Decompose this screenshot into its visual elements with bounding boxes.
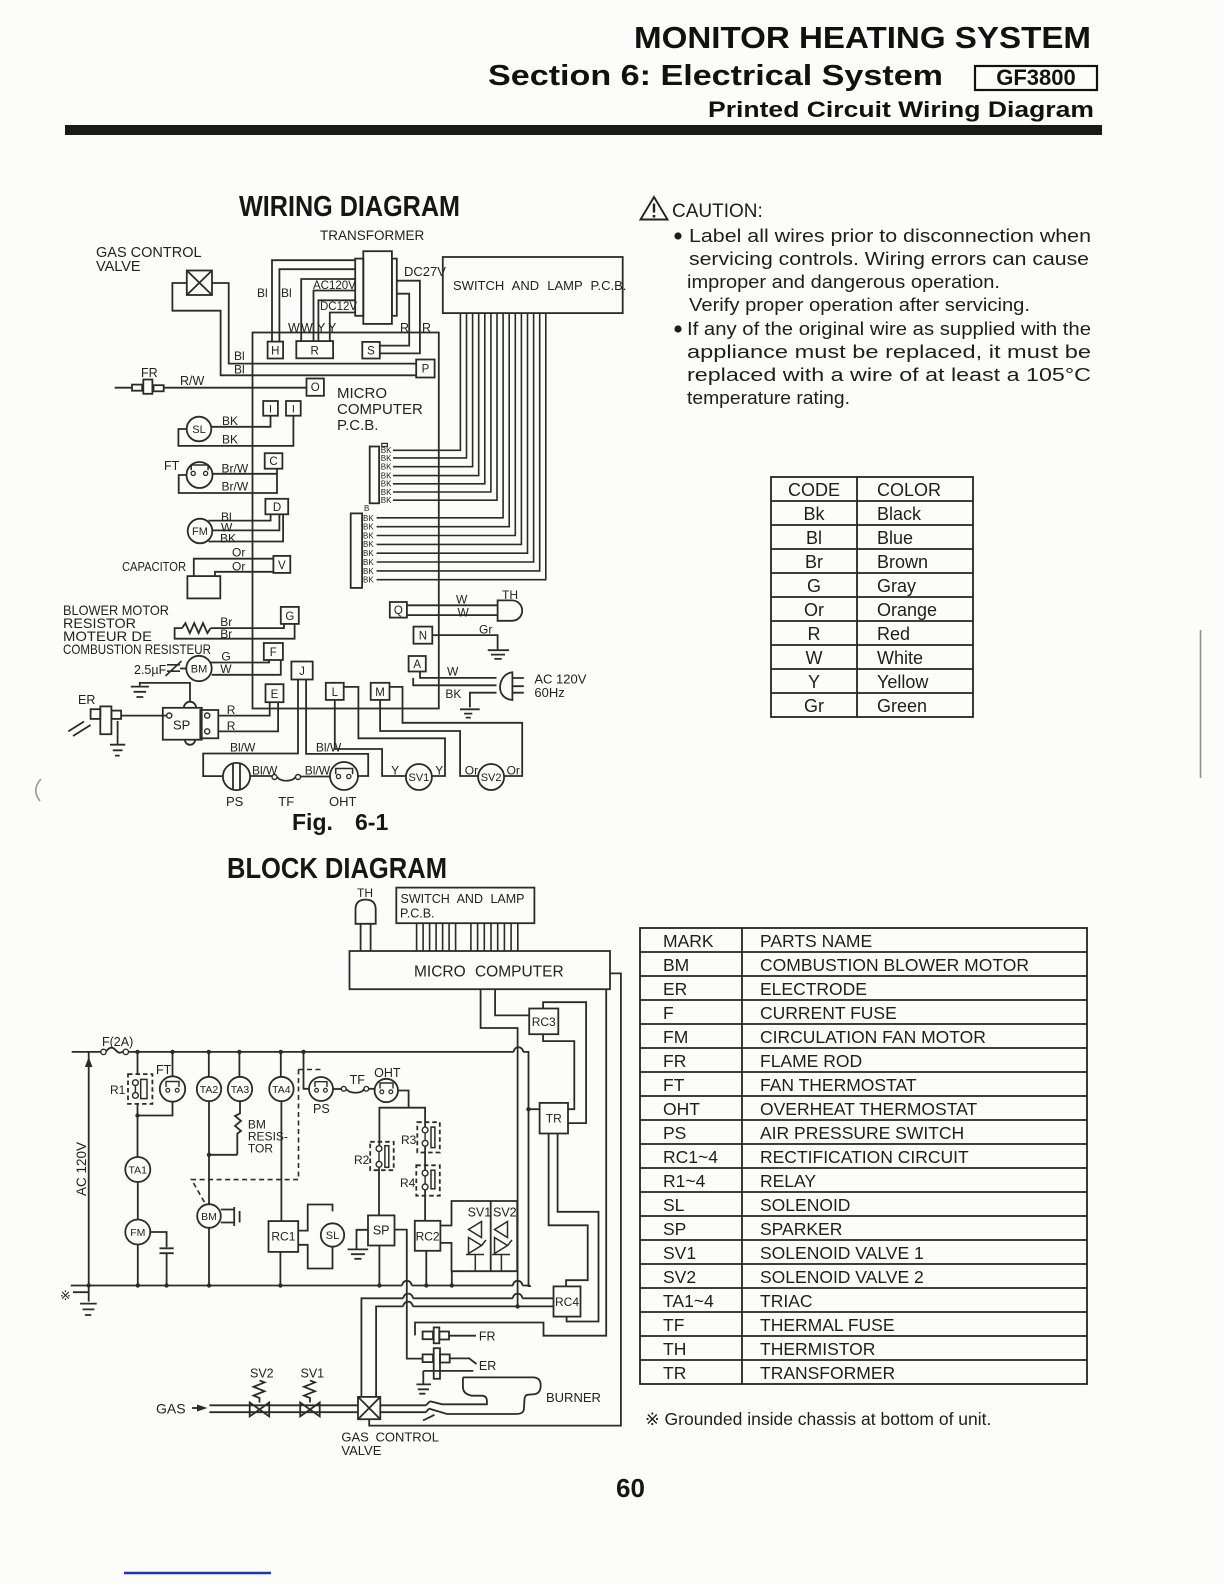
wire TA2 to BM and resistor junction: [208, 1101, 210, 1204]
svg-text:Bl: Bl: [806, 528, 822, 548]
svg-text:R: R: [808, 624, 821, 644]
svg-text:GF3800: GF3800: [996, 65, 1076, 90]
svg-text:PS: PS: [663, 1123, 686, 1143]
wire node to R3: [409, 1108, 426, 1127]
svg-text:R1~4: R1~4: [663, 1171, 706, 1191]
svg-text:Or: Or: [507, 764, 520, 778]
component R2 relay: [370, 1142, 394, 1170]
component BURNER outline: [429, 1377, 541, 1414]
svg-text:RC1: RC1: [271, 1230, 295, 1244]
svg-text:Gr: Gr: [479, 623, 492, 637]
wire TR left stub: [529, 1108, 540, 1110]
svg-text:C: C: [269, 456, 277, 468]
svg-text:Brown: Brown: [877, 552, 928, 572]
wire from A branch to plug middle: [413, 678, 496, 685]
terminal F: [264, 643, 283, 660]
svg-text:R: R: [227, 703, 236, 717]
svg-text:Bl/W: Bl/W: [305, 764, 331, 778]
svg-text:BK: BK: [363, 540, 374, 549]
wire RC1 to SL lower bracket: [298, 1245, 332, 1269]
svg-text:BM: BM: [663, 955, 689, 975]
svg-text:If any of the original wire as: If any of the original wire as supplied …: [687, 318, 1091, 339]
wire BK FM to D: [209, 514, 284, 541]
svg-text:SP: SP: [663, 1219, 686, 1239]
svg-text:S: S: [367, 346, 375, 358]
resistor R-BM (block) zigzag: [235, 1101, 241, 1155]
wire TA4 to RC1: [280, 1101, 282, 1221]
svg-text:AC120V: AC120V: [313, 280, 356, 292]
svg-text:Yellow: Yellow: [877, 672, 929, 692]
label CAPACITOR: [122, 559, 186, 574]
ground (SP): [140, 683, 190, 702]
svg-text:RELAY: RELAY: [760, 1171, 816, 1191]
component R1 relay: [137, 1052, 139, 1074]
component FM circulation fan motor (block): [125, 1220, 150, 1245]
svg-text:Verify proper operation after: Verify proper operation after servicing.: [689, 294, 1030, 315]
label BLOWER MOTOR RESISTOR (bilingual): [63, 602, 211, 657]
component TR transformer (block): [540, 1103, 568, 1134]
svg-text:DC27V: DC27V: [404, 264, 446, 279]
svg-text:BK: BK: [445, 687, 461, 701]
wire G BM to F: [211, 660, 270, 663]
component RC2 rectification circuit: [415, 1221, 441, 1251]
scan artifact: blue underline bottom left: [124, 1572, 271, 1575]
svg-text:ELECTRODE: ELECTRODE: [760, 979, 867, 999]
svg-text:TA1: TA1: [129, 1165, 148, 1177]
wire pin bus group 1 (7 pins): [417, 923, 456, 951]
svg-text:W: W: [458, 606, 470, 620]
component BM blower motor (block): [197, 1204, 221, 1228]
svg-text:FLAME ROD: FLAME ROD: [760, 1051, 862, 1071]
ground (plug BK): [460, 709, 480, 717]
wire W FM to D: [212, 514, 279, 530]
component FM circulation fan motor: [188, 519, 213, 544]
wire TH legs to micro computer: [361, 924, 371, 951]
svg-text:SOLENOID: SOLENOID: [760, 1195, 850, 1215]
svg-text:TF: TF: [278, 794, 294, 809]
transformer T1 core: [363, 251, 392, 324]
svg-text:R4: R4: [400, 1176, 416, 1190]
svg-text:RC3: RC3: [532, 1015, 556, 1029]
rail A (neutral bottom rail): [71, 1286, 530, 1288]
component gas control valve (block): [358, 1397, 380, 1419]
svg-text:R2: R2: [354, 1153, 370, 1167]
ground (ER block): [422, 1371, 424, 1384]
spark gap marks: [68, 722, 90, 737]
junction dots rail A: [87, 1050, 531, 1309]
terminal H: [268, 342, 284, 359]
component SV2 solenoid valve 2: [478, 764, 504, 790]
svg-text:Orange: Orange: [877, 600, 937, 620]
svg-text:60: 60: [616, 1473, 645, 1503]
wire RC2 to SV1 box top: [440, 1201, 464, 1226]
terminal O: [307, 379, 324, 396]
wire micro drop to rail C (long): [481, 989, 518, 1306]
rail A hop over micro drop: [513, 1281, 522, 1286]
capacitor BM stub: [221, 1210, 234, 1223]
svg-text:SWITCH AND LAMP P.C.B.: SWITCH AND LAMP P.C.B.: [453, 278, 626, 293]
svg-text:FM: FM: [663, 1027, 688, 1047]
wire DC27V lower to S stub: [380, 281, 420, 354]
svg-text:V: V: [278, 560, 286, 572]
svg-text:G: G: [285, 611, 294, 623]
svg-text:SL: SL: [326, 1230, 339, 1242]
component OHT overheat thermostat: [330, 762, 358, 790]
scan artifact: right margin line: [1200, 630, 1202, 778]
label TRANSFORMER: [320, 228, 425, 243]
svg-text:BK: BK: [381, 463, 392, 472]
fuse F(2A): [102, 1035, 133, 1049]
svg-text:TR: TR: [663, 1363, 686, 1383]
svg-text:A: A: [413, 659, 421, 671]
micro computer box: [350, 951, 611, 989]
terminal I1: [263, 401, 278, 416]
svg-text:FT: FT: [164, 459, 180, 473]
svg-text:SV2: SV2: [663, 1267, 696, 1287]
svg-text:BK: BK: [363, 567, 374, 576]
wire TR secondary 2 to RC4 bottom loop: [558, 1134, 599, 1322]
svg-text:SP: SP: [173, 718, 190, 733]
wire rail to PS: [304, 1052, 310, 1089]
wire W from A to plug: [420, 672, 497, 678]
AC rail top continued with hop over micro drop: [129, 1051, 514, 1053]
svg-text:Br/W: Br/W: [222, 480, 249, 494]
wire Bl/W J to OHT right loop: [306, 680, 368, 777]
wire RC2 to SV box bottom: [440, 1243, 451, 1271]
svg-text:R/W: R/W: [180, 374, 205, 388]
wire TR secondary 1 to RC4 top: [549, 1134, 588, 1287]
svg-text:FM: FM: [130, 1227, 145, 1239]
terminal S: [362, 342, 380, 359]
svg-text:RC1~4: RC1~4: [663, 1147, 718, 1167]
terminal J: [291, 662, 312, 680]
label AC120V / DC12V / DC27V: [313, 264, 446, 313]
svg-text:BK: BK: [363, 549, 374, 558]
thyristor SV2 glyph: [492, 1222, 512, 1255]
header rule bar: [65, 125, 1102, 135]
valve SV1 (gas train): [300, 1403, 320, 1417]
svg-text:Or: Or: [232, 546, 245, 560]
svg-text:P: P: [422, 364, 430, 376]
connector CN2 lower: [351, 513, 362, 588]
svg-text:Gr: Gr: [804, 696, 824, 716]
ground (N wire): [488, 650, 509, 659]
wire Br/W FT right to C: [213, 473, 278, 475]
svg-text:Bl/W: Bl/W: [230, 741, 256, 755]
svg-text:TRANSFORMER: TRANSFORMER: [320, 228, 425, 243]
wire valve right lead to P (Bl): [212, 283, 416, 364]
wire R4 to RC2: [424, 1190, 426, 1221]
wire W BM to F: [212, 660, 281, 675]
svg-text:RC4: RC4: [555, 1295, 579, 1309]
component TA1 triac: [125, 1157, 150, 1182]
wire Gr from N to ground: [432, 635, 497, 649]
thyristor SV1 glyph: [466, 1222, 486, 1255]
wire R1 to TA1: [137, 1104, 139, 1157]
svg-text:Bl: Bl: [234, 349, 245, 363]
transformer T1 right plate: [392, 259, 397, 316]
wire FT bottom joins R1/TA1 line: [138, 1102, 173, 1116]
svg-text:FT: FT: [663, 1075, 685, 1095]
svg-text:I: I: [269, 404, 272, 416]
svg-text:O: O: [311, 382, 320, 394]
svg-text:Br: Br: [220, 627, 232, 641]
svg-text:SV1: SV1: [409, 772, 430, 784]
wire RC2 to rail A: [425, 1251, 427, 1287]
component FT fan thermostat: [164, 459, 180, 473]
svg-text:TA2: TA2: [200, 1084, 219, 1096]
component TF thermal fuse: [250, 775, 272, 777]
svg-text:BK: BK: [222, 433, 238, 447]
ground (SP block): [357, 1230, 369, 1249]
wire Br resistor bottom loop to G: [175, 624, 295, 639]
wire Bl pair to terminal H: [272, 260, 355, 341]
component RC4 rectification circuit: [554, 1286, 581, 1316]
terminal P: [416, 360, 434, 378]
wire FM to run capacitor: [150, 1232, 166, 1247]
terminal D: [265, 499, 288, 515]
wire AC feed down to TR left and rail A: [523, 1052, 528, 1287]
svg-text:TRIAC: TRIAC: [760, 1291, 813, 1311]
label AC 120V (rotated): [74, 1142, 89, 1196]
terminal V: [273, 556, 290, 573]
svg-text:SV1: SV1: [468, 1206, 492, 1220]
svg-text:BLOCK DIAGRAM: BLOCK DIAGRAM: [227, 853, 447, 885]
component FR flame rod: [141, 366, 205, 388]
svg-text:SL: SL: [663, 1195, 685, 1215]
svg-text:OVERHEAT THERMOSTAT: OVERHEAT THERMOSTAT: [760, 1099, 977, 1119]
svg-text:TA4: TA4: [272, 1084, 291, 1096]
svg-text:Bl/W: Bl/W: [316, 741, 342, 755]
svg-text:Br: Br: [805, 552, 823, 572]
svg-text:TH: TH: [663, 1339, 686, 1359]
component ER electrode: [78, 693, 95, 707]
svg-text:Or: Or: [465, 764, 478, 778]
svg-text:temperature rating.: temperature rating.: [687, 387, 850, 408]
wire BM to rail A: [208, 1228, 210, 1286]
svg-text:Y: Y: [391, 764, 399, 778]
capacitor box: [187, 576, 220, 598]
svg-text:W: W: [447, 665, 459, 679]
component RC1 rectification circuit: [269, 1221, 299, 1252]
wire FM to rail A: [137, 1245, 139, 1286]
AC rail top: [72, 1051, 101, 1053]
svg-text:White: White: [877, 648, 923, 668]
svg-text:SV2: SV2: [250, 1367, 274, 1381]
node Bl labels: [234, 286, 292, 377]
wire SV box to rail A: [452, 1271, 465, 1287]
component TF thermal fuse (block): [333, 1088, 341, 1090]
svg-text:TRANSFORMER: TRANSFORMER: [760, 1363, 895, 1383]
svg-text:COMPUTER: COMPUTER: [337, 401, 423, 418]
svg-text:※ Grounded inside chassis at b: ※ Grounded inside chassis at bottom of u…: [645, 1409, 991, 1429]
svg-text:P.C.B.: P.C.B.: [400, 907, 435, 921]
svg-text:6-1: 6-1: [355, 809, 388, 835]
svg-text:W: W: [456, 593, 468, 607]
svg-text:BK: BK: [363, 523, 374, 532]
svg-text:J: J: [299, 666, 305, 678]
capacitor C-FM: [160, 1248, 174, 1253]
svg-text:F: F: [270, 647, 277, 659]
svg-text:MARK: MARK: [663, 931, 714, 951]
svg-text:B: B: [364, 504, 369, 513]
svg-text:R1: R1: [110, 1083, 126, 1097]
wire SP to ER feed: [395, 1230, 423, 1359]
GF3800 frame: [975, 66, 1097, 90]
svg-text:SL: SL: [192, 424, 205, 436]
component R3 relay: [417, 1122, 440, 1152]
svg-text:R3: R3: [401, 1133, 417, 1147]
svg-text:SV1: SV1: [663, 1243, 696, 1263]
svg-text:Bl/W: Bl/W: [252, 764, 278, 778]
svg-text:BK: BK: [222, 414, 238, 428]
svg-text:SV1: SV1: [301, 1367, 325, 1381]
svg-text:TOR: TOR: [248, 1142, 273, 1156]
component SV1 solenoid valve 1: [406, 764, 432, 790]
svg-text:D: D: [273, 502, 281, 514]
svg-text:Fig.: Fig.: [292, 809, 333, 835]
svg-text:Or: Or: [232, 560, 245, 574]
valve SV2 (gas train): [250, 1403, 270, 1417]
wire R2 to SP: [378, 1167, 380, 1215]
svg-text:improper and dangerous operati: improper and dangerous operation.: [687, 271, 1000, 292]
rail A hop over ER feed: [402, 1281, 411, 1286]
switch and lamp pcb box (block): [396, 888, 534, 924]
component TH thermistor: [502, 588, 518, 602]
wire Or capacitor to V lower: [215, 572, 273, 576]
component SL solenoid: [187, 417, 212, 442]
svg-text:Bl: Bl: [234, 363, 245, 377]
svg-text:W: W: [220, 662, 232, 676]
svg-text:N: N: [419, 631, 427, 643]
svg-text:R: R: [227, 719, 236, 733]
svg-text:CIRCULATION FAN MOTOR: CIRCULATION FAN MOTOR: [760, 1027, 986, 1047]
svg-text:Bk: Bk: [803, 504, 825, 524]
svg-text:FM: FM: [192, 526, 208, 538]
wire R3 to R4: [424, 1146, 426, 1170]
svg-text:FR: FR: [663, 1051, 686, 1071]
wire RC1 to SL upper bracket: [298, 1205, 332, 1231]
component TA3 triac: [238, 1052, 240, 1077]
svg-text:TA1~4: TA1~4: [663, 1291, 714, 1311]
svg-text:Label all wires prior to disco: Label all wires prior to disconnection w…: [689, 225, 1091, 246]
svg-text:E: E: [271, 689, 279, 701]
wire SV legs to box bottom: [475, 1255, 501, 1272]
svg-text:servicing controls. Wiring err: servicing controls. Wiring errors can ca…: [689, 248, 1089, 269]
ground (ER): [117, 721, 119, 744]
gas control valve (solenoid symbol): [187, 271, 212, 296]
svg-text:CURRENT FUSE: CURRENT FUSE: [760, 1003, 897, 1023]
wire valve left lead to P (Bl): [172, 283, 416, 375]
wire pin bus group 2 (8 pins): [471, 923, 518, 951]
svg-text:SPARKER: SPARKER: [760, 1219, 842, 1239]
wire AC120V pair (W) to terminal R: [301, 279, 355, 341]
wire Y L to SV1 right loop: [344, 687, 445, 776]
component TH thermistor (block): [357, 886, 373, 900]
svg-text:GAS: GAS: [156, 1401, 186, 1417]
wire bus from switch/lamp pcb to lower connector (8 wires): [377, 313, 504, 518]
terminal M: [371, 683, 390, 700]
wire bus from switch/lamp pcb to upper connector (7 wires): [393, 313, 460, 450]
svg-text:Bl: Bl: [257, 286, 268, 300]
svg-text:BURNER: BURNER: [546, 1390, 601, 1405]
svg-text:OHT: OHT: [663, 1099, 700, 1119]
svg-text:BK: BK: [363, 558, 374, 567]
svg-text:Red: Red: [877, 624, 910, 644]
svg-text:replaced with a wire of at lea: replaced with a wire of at least a 105°C: [687, 364, 1091, 385]
svg-text:Black: Black: [877, 504, 922, 524]
svg-text:ER: ER: [663, 979, 687, 999]
svg-text:BM: BM: [201, 1211, 217, 1223]
terminal I2: [286, 401, 301, 416]
svg-text:AIR PRESSURE SWITCH: AIR PRESSURE SWITCH: [760, 1123, 964, 1143]
terminal C: [265, 453, 283, 469]
dashed linkage PS to BM: [192, 1070, 323, 1203]
svg-text:VALVE: VALVE: [96, 259, 141, 275]
resistor R-BM zigzag: [182, 623, 210, 633]
component ER electrode (block): [423, 1354, 433, 1362]
terminal N: [414, 627, 433, 644]
svg-text:SOLENOID VALVE 1: SOLENOID VALVE 1: [760, 1243, 924, 1263]
transformer T1 left plate: [355, 259, 363, 316]
svg-text:FAN THERMOSTAT: FAN THERMOSTAT: [760, 1075, 917, 1095]
wire Bl/W J to PS left loop: [203, 680, 298, 777]
wire Y L to SV1 left: [335, 700, 406, 776]
svg-text:Or: Or: [804, 600, 824, 620]
wire Br/W FT left loop to C: [179, 469, 277, 493]
wire TA1 to FM: [137, 1182, 139, 1220]
component FT fan thermostat (block): [156, 1063, 172, 1077]
svg-text:OHT: OHT: [329, 794, 357, 809]
wire SP to rail A: [378, 1246, 380, 1288]
svg-text:Gray: Gray: [877, 576, 916, 596]
svg-text:AC 120V: AC 120V: [74, 1142, 89, 1196]
svg-text:BK: BK: [363, 576, 374, 585]
component FR flame rod (block): [423, 1332, 433, 1340]
svg-text:WIRING DIAGRAM: WIRING DIAGRAM: [239, 191, 460, 223]
svg-text:BK: BK: [381, 496, 392, 505]
node R R labels: [400, 321, 431, 335]
wire micro right to rail2: [369, 973, 621, 1425]
label MICRO COMPUTER P.C.B.: [337, 385, 423, 434]
component TA4 triac: [280, 1052, 282, 1077]
wire RC3 bottom loop to TR right: [543, 1034, 574, 1109]
svg-text:COLOR: COLOR: [877, 480, 941, 500]
wire ER lower lead: [423, 1370, 473, 1372]
svg-text:COMBUSTION BLOWER MOTOR: COMBUSTION BLOWER MOTOR: [760, 955, 1029, 975]
svg-text:P.C.B.: P.C.B.: [337, 417, 378, 434]
svg-text:PARTS NAME: PARTS NAME: [760, 931, 872, 951]
svg-text:L: L: [332, 687, 339, 699]
label GAS CONTROL VALVE: [96, 245, 202, 275]
wire Or capacitor to V: [194, 559, 274, 576]
terminal A: [409, 656, 426, 672]
component SV1 triac box: [465, 1201, 518, 1271]
venturi fork flare lines: [423, 1401, 435, 1420]
scan artifact: left margin curve: [36, 779, 41, 801]
label 2.5uF: [134, 663, 167, 677]
switch and lamp pcb box: [443, 257, 623, 313]
svg-text:CAPACITOR: CAPACITOR: [122, 559, 186, 574]
svg-text:I: I: [292, 404, 295, 416]
rail B to RC4: [361, 1298, 553, 1397]
warning triangle icon: [641, 197, 668, 220]
wire R SP to E second: [218, 702, 278, 731]
svg-text:TF: TF: [663, 1315, 684, 1335]
svg-text:THERMAL FUSE: THERMAL FUSE: [760, 1315, 895, 1335]
svg-text:Y: Y: [808, 672, 820, 692]
svg-text:TA3: TA3: [231, 1084, 250, 1096]
